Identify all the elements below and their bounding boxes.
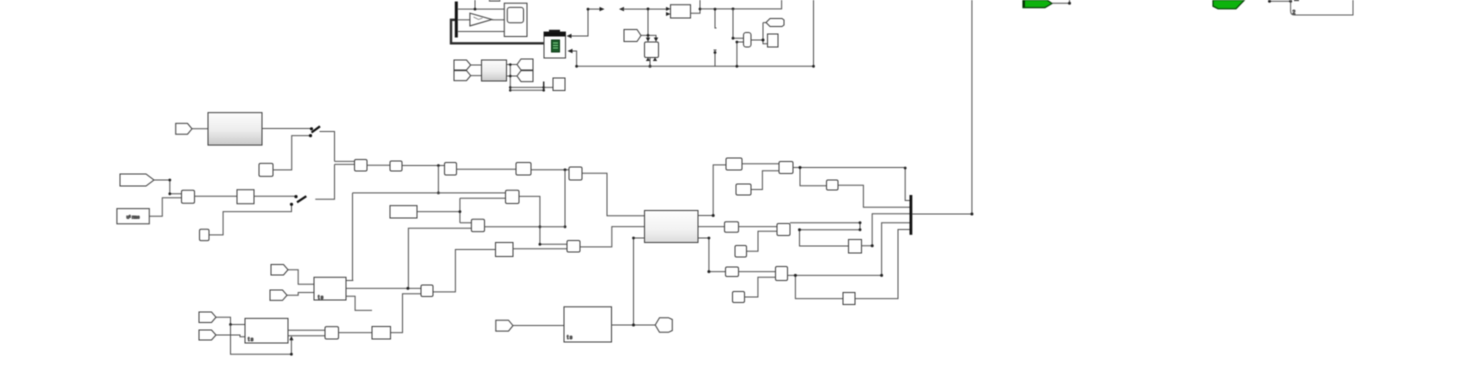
block G0b	[325, 327, 339, 339]
From tag T7	[199, 312, 216, 323]
wire up to tag	[763, 22, 766, 24]
block S2	[237, 190, 254, 204]
constant P0	[733, 292, 745, 303]
wire GB1 to switch1 upper contact	[262, 128, 311, 130]
svg-text:t s: t s	[567, 335, 573, 341]
wire S1 to S2	[195, 195, 238, 197]
ToFile block with green file icon	[544, 31, 566, 58]
block B4	[516, 163, 531, 176]
wire GB2 out2 to E1	[698, 226, 725, 228]
wire T7 to H in1	[216, 317, 245, 326]
wire into ToFile lower right port	[568, 49, 577, 67]
green Goto tag GT1	[1023, 0, 1052, 8]
Goto tag left-pointing	[766, 19, 784, 27]
wire SQ2 up to switch2 lower contact	[209, 206, 292, 235]
constant N1	[735, 246, 747, 258]
manual switch 1	[309, 126, 320, 137]
square K	[768, 34, 779, 47]
wire block V bottom to long line	[649, 58, 652, 68]
wire into small square	[544, 86, 553, 88]
wire tag A to gradient block	[471, 64, 482, 66]
wire with left arrow into block U line	[619, 7, 668, 11]
block E1	[725, 222, 739, 233]
wire M2 out route to K3	[790, 221, 861, 246]
wire demux out3 to scope	[458, 31, 504, 33]
big gradient block GB2	[645, 211, 699, 243]
gradient block GB1	[208, 113, 262, 146]
wire D0 to D1	[513, 248, 567, 250]
wire D1 out up to GB2 in2	[580, 227, 645, 247]
wire G1 out riser to D0	[433, 250, 496, 292]
wire E1 to M2	[739, 226, 778, 228]
wire long line riser into block R1 lower port	[736, 41, 744, 68]
wire GT1 out	[1052, 0, 1071, 5]
wire into outport box	[1268, 0, 1292, 3]
wire G0 up to G1 in2	[391, 294, 422, 333]
From tag feeding block V	[624, 30, 641, 42]
wire T5 to W1	[513, 325, 564, 327]
block G1	[421, 285, 433, 297]
block D0	[496, 243, 514, 257]
block J2	[779, 162, 793, 174]
wire stub with right arrow	[587, 7, 605, 11]
wire T3 to F in1	[288, 270, 314, 285]
wire demux out2 to gain	[458, 19, 470, 21]
demux bar	[455, 2, 458, 38]
From tag T1	[176, 123, 192, 134]
wire tag B to gradient block	[471, 75, 482, 77]
block W1	[564, 307, 612, 342]
block D1	[567, 241, 580, 253]
green Goto tag GT2	[1213, 0, 1245, 9]
wire double pair into B1	[335, 161, 355, 164]
wire B3 to B4	[457, 168, 517, 170]
From tag B	[454, 71, 471, 81]
riser long line down to F out1	[346, 193, 353, 281]
small square block	[553, 78, 565, 91]
wire F out2 to G1	[346, 287, 421, 290]
wire G0b to G0	[339, 332, 373, 334]
block B5	[569, 167, 582, 180]
block J1	[726, 158, 742, 170]
wire T4 to F in2	[287, 293, 314, 296]
wire H feedback loop	[231, 325, 294, 356]
wire CS1 up to switch1 lower contact	[273, 136, 310, 170]
svg-text:u² rms: u² rms	[126, 215, 140, 220]
constant CN2	[390, 206, 417, 218]
long bottom line of top diagram	[575, 0, 815, 68]
wire H out double pair to G0b	[288, 330, 325, 336]
scope block	[504, 3, 527, 36]
block F	[314, 277, 346, 301]
wire block to tag C	[507, 64, 518, 66]
outport box	[1291, 0, 1353, 16]
wire Q1 up to mux in5	[855, 230, 910, 299]
gain triangle	[470, 13, 492, 26]
manual switch 2	[290, 195, 306, 206]
wire P0 up to P2 in2	[745, 277, 776, 297]
wire switch1 out	[320, 132, 335, 162]
block B2	[390, 161, 402, 171]
small square SQ2	[200, 229, 210, 240]
wire T2 to S1	[154, 179, 182, 196]
block K2	[827, 180, 839, 190]
block C1	[506, 190, 520, 203]
wire C1 out down to D1 in1	[519, 196, 567, 245]
wire stub down from top bus	[714, 8, 717, 28]
wire C2 out up to B5 line	[564, 170, 567, 228]
block K3	[849, 240, 862, 254]
wire vertical split down	[509, 63, 512, 91]
block Q1	[843, 293, 855, 305]
wire CN2 split to C1 and C2	[417, 198, 506, 223]
block M2	[777, 224, 790, 236]
wire J2 out to mux and K2	[793, 166, 910, 201]
block R1 narrow	[744, 33, 752, 48]
constant square CS1	[259, 163, 273, 176]
mux bar	[910, 195, 913, 235]
small gradient block	[482, 60, 507, 81]
wire stub up from bottom line	[714, 50, 717, 66]
From tag T5	[496, 320, 513, 331]
wire C2 out	[485, 226, 566, 228]
wire B5 to big block GB2 in1	[582, 173, 645, 216]
block B3	[445, 163, 457, 176]
wire mux out up to top edge	[912, 0, 973, 216]
wire P1 to P2	[739, 271, 776, 273]
wire B1 to B2	[367, 164, 390, 166]
Goto tag T6 left-pointing	[655, 318, 672, 333]
wire top bus	[700, 0, 782, 10]
wire GB2 out3 down to P1	[698, 237, 726, 274]
wire B4 to B5	[531, 168, 569, 171]
wire top bus down to block V	[646, 7, 650, 41]
wire K2 to mux in2	[838, 185, 910, 207]
wire T8 to H in2	[216, 335, 245, 337]
block G0	[372, 327, 391, 340]
wire W1 out to tag T6 and riser to GB2 in3	[612, 237, 656, 327]
wire T1 to gradient block GB1	[192, 128, 208, 130]
From tag T4	[270, 290, 287, 300]
constant K1	[736, 184, 751, 195]
wire GB2 out1 up to J1	[698, 165, 726, 217]
wire double horizontal pair	[510, 82, 545, 92]
wire rms box to S1	[149, 198, 181, 216]
block P2	[776, 267, 788, 281]
wire From tag to block V top	[641, 35, 658, 41]
wire S2 to switch2 upper contact	[254, 195, 295, 197]
block H	[245, 318, 288, 343]
wire top bus down into block R1 upper port	[732, 9, 744, 40]
wire from top edge into demux-scope line	[474, 0, 477, 11]
long line F out to C1	[353, 192, 506, 194]
wire into ToFile upper right port	[567, 9, 589, 38]
wire riser into C2 in2	[408, 228, 471, 288]
wire N1 up to M2 in2	[747, 231, 778, 251]
wire demux out1 to scope	[458, 8, 504, 10]
block P1	[726, 267, 739, 277]
rms constant box	[117, 209, 149, 224]
Goto tag C left-pointing	[517, 59, 533, 70]
wire B2 to B3	[402, 164, 445, 167]
From tag T3	[271, 265, 288, 276]
svg-text:t s: t s	[248, 337, 254, 343]
Goto tag D left-pointing	[517, 71, 533, 82]
wire K1 up to J2 in2	[751, 171, 779, 190]
wire F out1 stub to riser	[346, 280, 353, 282]
wire block to tag D	[507, 75, 518, 77]
From tag T2	[120, 174, 154, 186]
wire J1 to J2	[742, 163, 779, 165]
From tag A	[454, 60, 471, 70]
svg-text:t s: t s	[318, 295, 324, 301]
block V	[645, 42, 659, 61]
block B1	[355, 160, 368, 172]
wire F port3 stub	[346, 296, 372, 310]
block U	[666, 5, 691, 18]
wire block U output up to top edge	[691, 0, 702, 13]
wire gain to scope	[492, 19, 504, 21]
cut-off block bottom edge	[489, 0, 499, 1]
block S1	[182, 190, 195, 203]
block C2	[471, 219, 484, 231]
From tag T8	[199, 330, 216, 340]
wire junction down to long line	[437, 166, 440, 195]
wire switch2 out	[315, 164, 334, 199]
wire P2 out to mux riser and Q1	[788, 223, 910, 299]
thick vector wire from demux left down to ToFile block	[451, 20, 544, 44]
wire R1 out split	[751, 23, 768, 44]
wire K3 up to mux in3	[862, 214, 910, 247]
svg-text:2: 2	[1293, 10, 1296, 16]
